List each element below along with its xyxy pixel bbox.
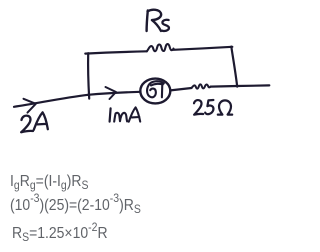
current arrow 2A arrowhead (24, 99, 36, 113)
wire: top branch right segment (174, 47, 233, 50)
label 25 ohm: digit 2 (194, 100, 203, 115)
galvanometer G inner symbol (147, 81, 164, 97)
resistor RS coil (147, 44, 174, 51)
wire: galvanometer to 25 ohm resistor (170, 88, 191, 90)
wire: top branch left segment (85, 51, 147, 53)
equation line 2: (10^-3)(25)=(2-10^-3)RS (10, 198, 141, 214)
galvanometer G circle (140, 79, 170, 104)
label 2A: digit 2 (21, 116, 33, 133)
equation line 1: IgRg=(I-Ig)RS (10, 174, 88, 190)
wire: left branch vertical riser (88, 53, 89, 98)
current arrow 1mA arrowhead (106, 87, 117, 99)
wire: right branch vertical drop (231, 47, 237, 87)
resistor 25 ohm coil (192, 84, 211, 88)
label 1mA: letter A (129, 107, 140, 121)
label 2A: letter A (34, 112, 48, 129)
wire: 25 ohm resistor to right corner junction (211, 85, 237, 88)
wire: junction to galvanometer with 1mA arrow (88, 92, 141, 95)
label RS: letter s (162, 20, 169, 31)
label 25 ohm: omega (218, 100, 232, 114)
label 1mA: digit 1 (110, 108, 111, 121)
label 25 ohm: digit 5 (205, 100, 213, 114)
wire: main line left segment with 2A arrow (14, 95, 88, 107)
label RS: letter R (147, 10, 162, 31)
wire: right corner to right end (237, 84, 269, 87)
label 1mA: letter m (114, 113, 127, 122)
equation line 3: RS=1.25x10^-2 R (12, 226, 108, 242)
